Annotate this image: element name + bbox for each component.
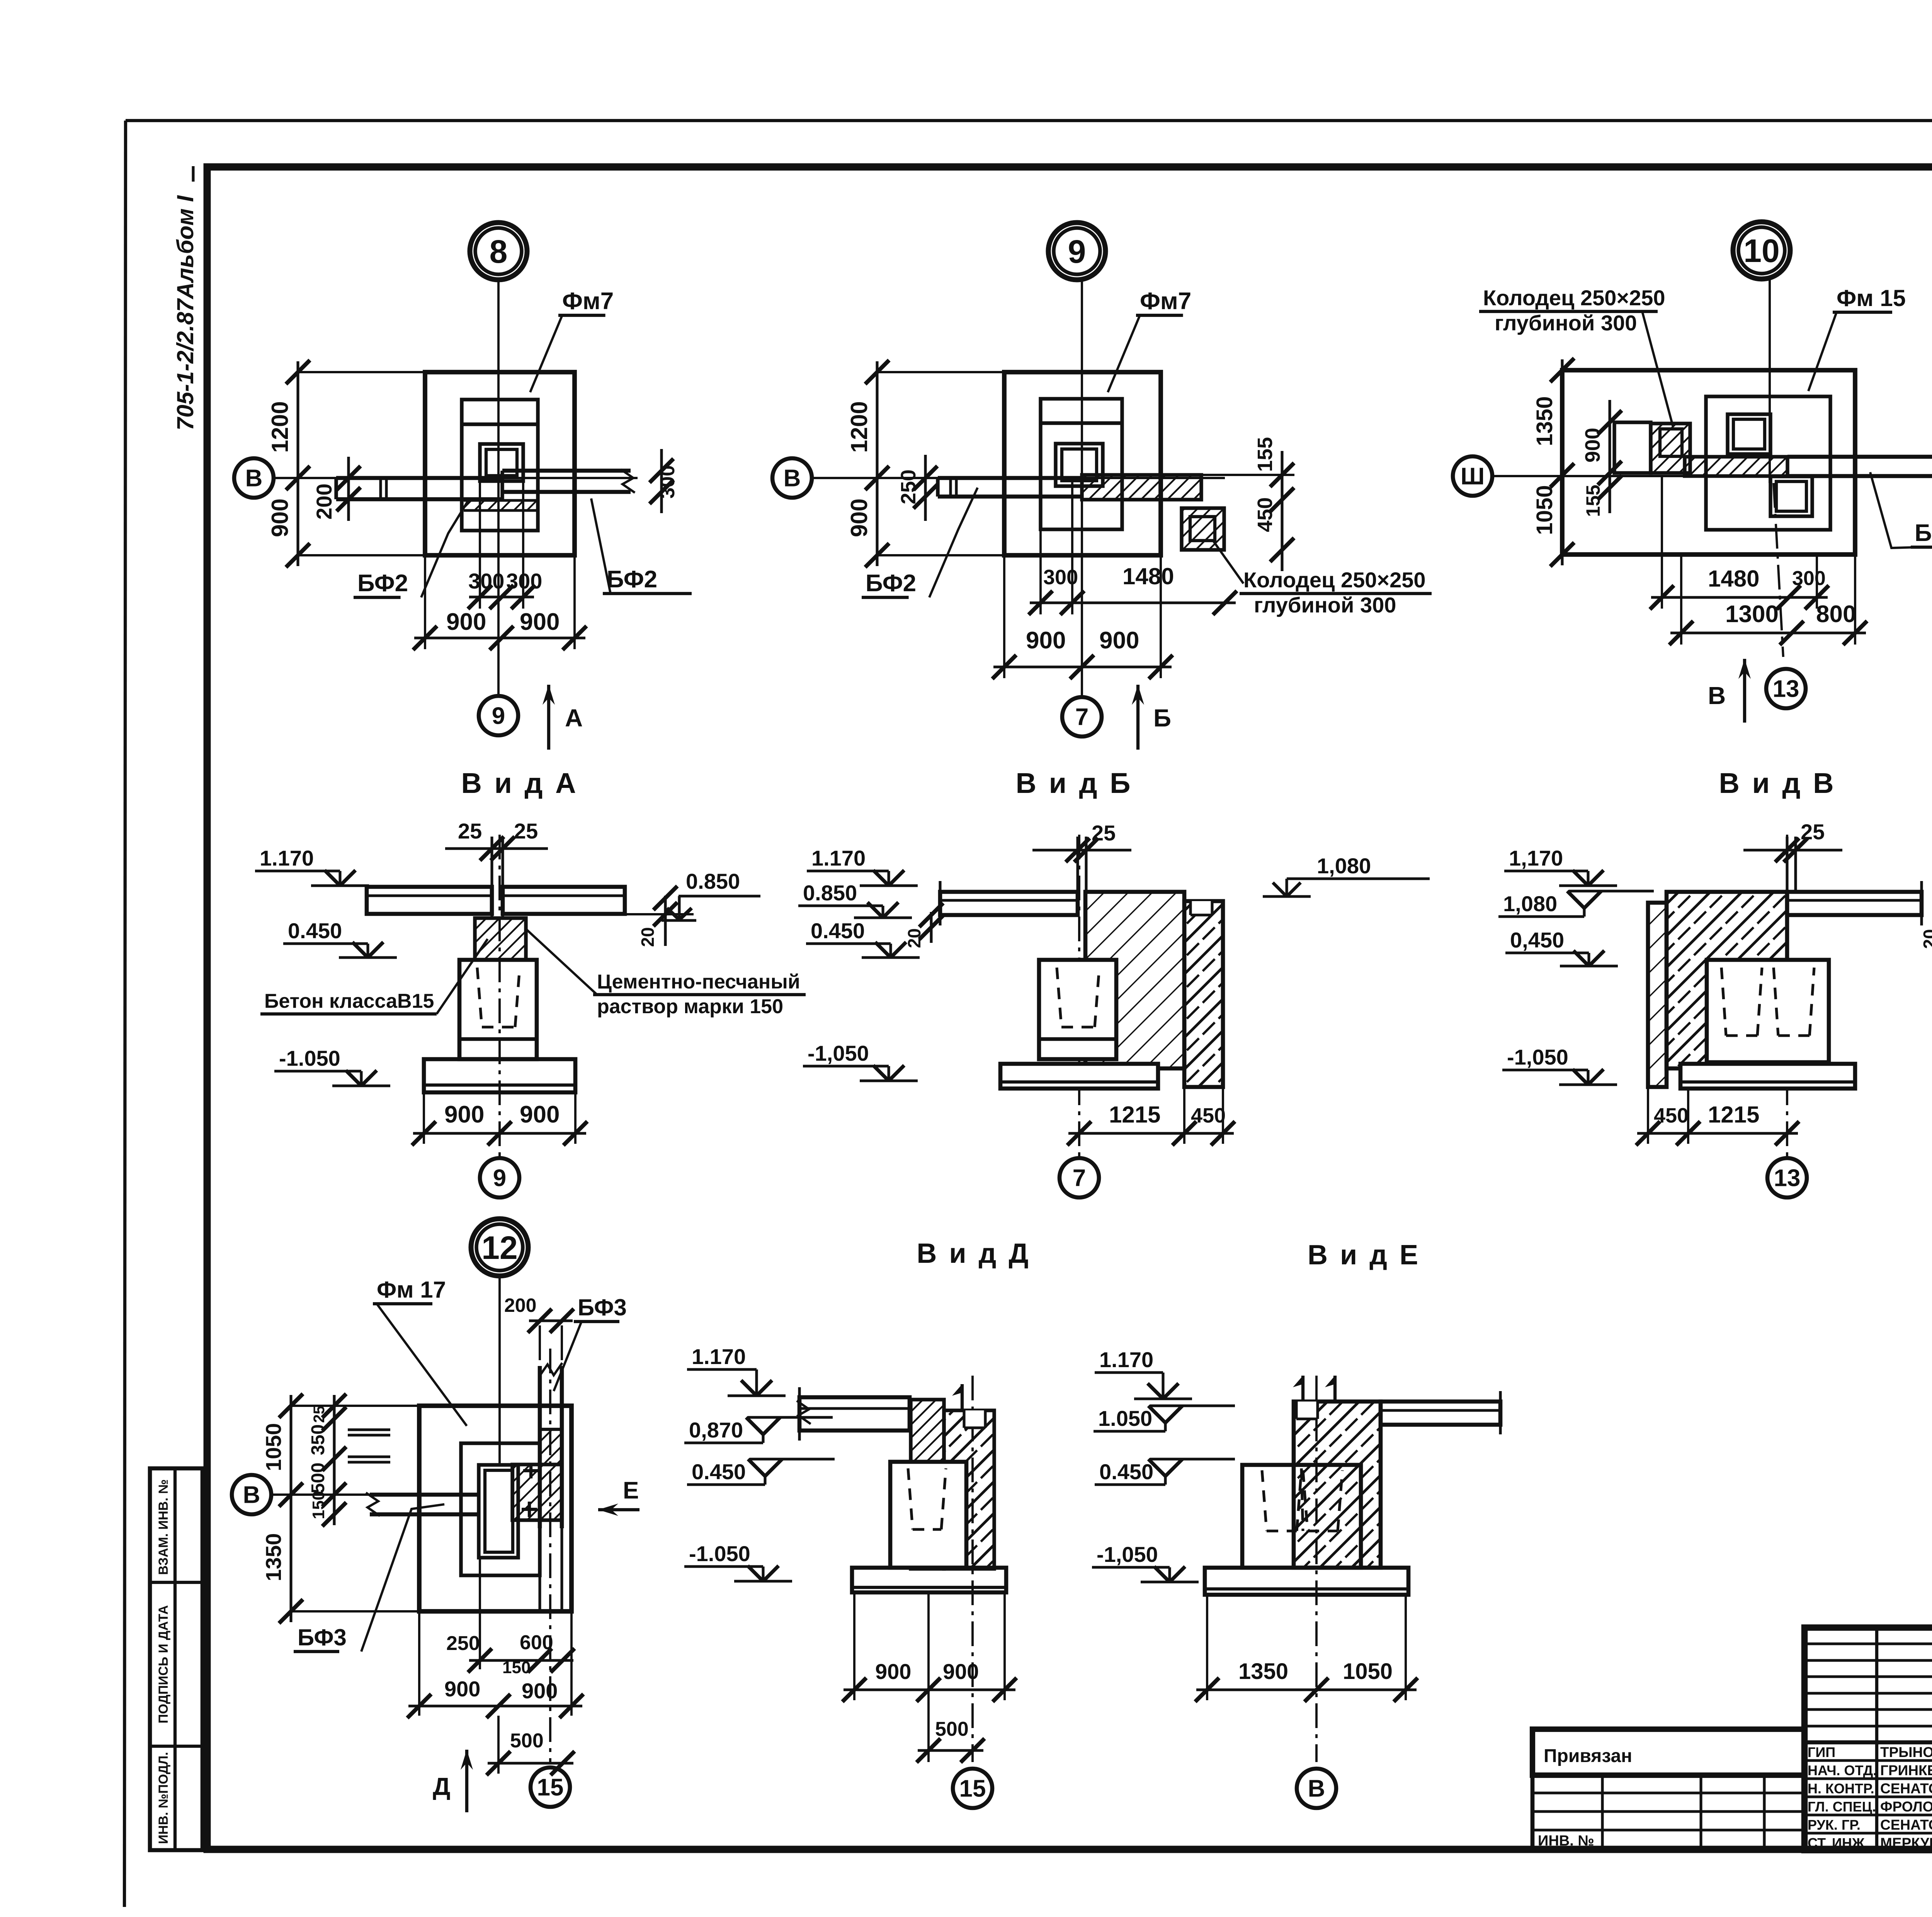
section Б dimension 20 (930, 912, 932, 943)
section Е wall column hatched (1294, 1402, 1381, 1568)
node 12 dimension 200 top (529, 1319, 573, 1322)
section Б wall column hatched (1184, 901, 1223, 1087)
section В wall column hatched left (1648, 903, 1667, 1087)
axis circle 15 node 12 bottom (531, 1767, 570, 1807)
svg-text:1350: 1350 (261, 1533, 286, 1582)
node 10 foundation slab outline (1562, 370, 1855, 555)
node 8 anchor socket (480, 444, 523, 481)
svg-text:В: В (243, 1482, 260, 1509)
svg-text:РУК. ГР.: РУК. ГР. (1808, 1817, 1861, 1833)
svg-text:450: 450 (1253, 497, 1277, 532)
section В pier (1707, 960, 1829, 1062)
section В dimension 25 (1743, 849, 1842, 851)
title block outline (1804, 1628, 1932, 1850)
svg-text:7: 7 (1075, 704, 1088, 731)
node 9 wall panel БФ hatched right (1082, 475, 1201, 500)
section В dimension 450 1215 (1647, 1087, 1649, 1144)
node 12 detail circle (471, 1219, 528, 1276)
node 8 vertical centerline (497, 281, 500, 696)
node 10 wall panel right (1787, 455, 1932, 459)
svg-text:7: 7 (1073, 1165, 1086, 1192)
svg-text:300: 300 (1043, 566, 1078, 589)
section Б footing (1000, 1064, 1158, 1089)
svg-text:ГИП: ГИП (1808, 1744, 1835, 1760)
section Е pier sockets dashed (1262, 1470, 1267, 1531)
axis circle 7 node 9 bottom (1062, 697, 1102, 737)
node 8 dimension 1200/900 left (296, 361, 299, 566)
svg-text:25: 25 (311, 1406, 328, 1423)
svg-text:В и д Е: В и д Е (1308, 1240, 1420, 1271)
sheet inner thick frame (207, 167, 1932, 1849)
svg-text:450: 450 (1191, 1104, 1226, 1127)
svg-text:БФ3: БФ3 (298, 1624, 347, 1650)
svg-text:1.170: 1.170 (692, 1344, 746, 1369)
node 8 pier outline (462, 400, 538, 531)
node 8 detail circle (470, 223, 527, 280)
svg-text:900: 900 (943, 1659, 979, 1684)
svg-text:25: 25 (1801, 820, 1825, 844)
svg-text:10: 10 (1743, 233, 1779, 269)
svg-text:900: 900 (1581, 428, 1604, 463)
svg-text:500: 500 (935, 1718, 969, 1740)
section Д footing (852, 1568, 1006, 1592)
node 10 anchor socket upper (1728, 414, 1770, 454)
node 9 dimension 300 1480 bottom (1039, 529, 1042, 614)
node 10 dimension 1480 300 bottom (1661, 476, 1663, 609)
node 12 horizontal axis line В (271, 1493, 460, 1496)
svg-text:12: 12 (481, 1230, 517, 1266)
svg-text:1.050: 1.050 (1098, 1406, 1152, 1431)
section A pier (459, 960, 537, 1059)
svg-text:1300: 1300 (1725, 601, 1779, 628)
svg-text:150: 150 (502, 1658, 531, 1677)
section Д anchor bolt (961, 1384, 964, 1410)
node 8 dimension 300 300 bottom (479, 481, 481, 609)
svg-text:20: 20 (1920, 929, 1932, 949)
svg-text:СЕНАТОРОВ: СЕНАТОРОВ (1880, 1817, 1932, 1833)
node 12 dimension 250 600 bottom (479, 1558, 481, 1669)
axis circle В node 12 (232, 1475, 271, 1514)
section Д floor slab (799, 1397, 910, 1431)
node 10 dimension 1300 800 bottom (1680, 555, 1682, 645)
node 10 horizontal axis line Ш (1492, 475, 1932, 477)
svg-text:1480: 1480 (1122, 563, 1174, 589)
svg-text:15: 15 (959, 1776, 986, 1802)
node 9 dimension 900 900 bottom (1003, 555, 1005, 678)
bound note box Привязан (1532, 1729, 1804, 1775)
svg-text:25: 25 (1092, 821, 1116, 845)
axis circle Ш node 10 (1453, 456, 1492, 496)
svg-text:1050: 1050 (1532, 485, 1557, 535)
section Б dimension 25 (1032, 849, 1131, 851)
section В joint gap lines (1786, 837, 1788, 892)
svg-text:450: 450 (1654, 1104, 1689, 1127)
svg-text:155: 155 (1253, 437, 1277, 472)
node 10 pier Фм15 outline (1706, 396, 1830, 530)
axis circle В node 8 (234, 458, 274, 498)
node 10 anchor socket lower (1770, 476, 1812, 516)
node 10 well side block (1614, 422, 1651, 473)
svg-text:0.450: 0.450 (288, 919, 342, 943)
svg-text:8: 8 (490, 233, 508, 270)
node 9 horizontal axis line В (812, 477, 1225, 479)
svg-text:350: 350 (308, 1424, 328, 1455)
svg-text:300: 300 (506, 569, 542, 593)
node 8 horizontal axis line В (274, 477, 638, 479)
svg-text:25: 25 (458, 819, 482, 843)
svg-text:1,080: 1,080 (1503, 891, 1557, 916)
svg-text:25: 25 (514, 819, 538, 843)
svg-text:Бетон классаВ15: Бетон классаВ15 (264, 990, 434, 1012)
svg-text:1,170: 1,170 (1509, 846, 1563, 870)
svg-text:ИНВ. №: ИНВ. № (1538, 1833, 1594, 1849)
section Е floor slab right (1381, 1402, 1500, 1425)
svg-text:МЕРКУШИНА: МЕРКУШИНА (1880, 1835, 1932, 1851)
svg-text:В: В (1308, 1776, 1325, 1802)
section Е anchor bolts (1301, 1376, 1304, 1402)
section Б floor slab left (940, 892, 1078, 915)
svg-text:800: 800 (1816, 601, 1856, 628)
svg-text:Фм 17: Фм 17 (377, 1277, 446, 1303)
node 8 mortar joint hatch (464, 500, 537, 510)
section Б pier (1039, 960, 1116, 1059)
node 9 foundation slab Фм7 outline (1004, 372, 1161, 555)
node 10 wall panel БФ hatched (1685, 457, 1787, 476)
node 8 dimension 200 (347, 457, 350, 521)
svg-text:ТРЫНОВ: ТРЫНОВ (1880, 1744, 1932, 1760)
svg-text:ИНВ. №ПОДЛ.: ИНВ. №ПОДЛ. (156, 1752, 171, 1844)
svg-text:1.170: 1.170 (811, 846, 866, 870)
svg-text:1050: 1050 (1343, 1659, 1393, 1684)
svg-text:20: 20 (638, 927, 658, 947)
svg-text:9: 9 (492, 703, 505, 730)
node 9 anchor socket (1056, 444, 1103, 486)
svg-text:Фм7: Фм7 (1140, 288, 1191, 315)
left margin stamp table (150, 1468, 202, 1850)
axis circle 13 section В (1767, 1158, 1807, 1197)
section Д pier socket dashed (908, 1468, 913, 1529)
node 9 well колодец 250x250 (1182, 508, 1224, 550)
sheet outer thin border (126, 119, 1932, 122)
svg-text:705-1-2/2.87Альбом I: 705-1-2/2.87Альбом I (172, 195, 198, 430)
section Е pier (1242, 1465, 1361, 1568)
svg-text:В: В (1708, 682, 1726, 709)
svg-text:БФ2: БФ2 (607, 566, 657, 593)
node 10 detail circle (1733, 222, 1790, 279)
svg-text:В: В (245, 465, 263, 492)
section A dimension 20 (664, 896, 667, 946)
svg-text:900: 900 (520, 1101, 560, 1128)
svg-text:200: 200 (312, 483, 336, 519)
node 9 dimension 250 (924, 455, 927, 521)
section Д dimension 900 900 (844, 1688, 1015, 1691)
svg-text:900: 900 (1099, 627, 1139, 654)
svg-text:-1.050: -1.050 (279, 1046, 340, 1070)
svg-text:СТ. ИНЖ.: СТ. ИНЖ. (1808, 1835, 1868, 1851)
section A floor slab right (503, 887, 625, 914)
section Б joint gap lines (1076, 837, 1079, 892)
svg-text:Фм7: Фм7 (562, 288, 614, 315)
node 8 wall panel БФ2 left (336, 476, 502, 480)
svg-text:ГЛ. СПЕЦ.: ГЛ. СПЕЦ. (1808, 1799, 1876, 1815)
svg-text:200: 200 (504, 1294, 536, 1316)
svg-text:300: 300 (468, 569, 504, 593)
svg-text:глубиной 300: глубиной 300 (1254, 593, 1396, 617)
section Е dimension 1350 1050 (1196, 1688, 1417, 1691)
node 12 foundation slab Фм17 outline (419, 1406, 571, 1611)
node 12 anchor socket (479, 1465, 518, 1558)
svg-text:1350: 1350 (1532, 396, 1557, 446)
axis circle В node 9 (772, 458, 812, 498)
section Б centerline (1078, 835, 1080, 1159)
svg-text:Ш: Ш (1461, 463, 1485, 490)
svg-text:15: 15 (537, 1774, 564, 1801)
node 9 dimension 1200/900 left (876, 361, 878, 566)
svg-text:1.170: 1.170 (260, 846, 314, 870)
svg-text:-1.050: -1.050 (689, 1541, 750, 1566)
svg-text:300: 300 (1792, 567, 1826, 590)
svg-text:13: 13 (1774, 1165, 1801, 1192)
svg-text:500: 500 (510, 1730, 544, 1752)
node 9 wall panel БФ2 left (938, 476, 1082, 480)
section A footing (424, 1059, 575, 1092)
svg-text:Колодец 250×250: Колодец 250×250 (1243, 568, 1426, 592)
svg-text:0,870: 0,870 (689, 1418, 743, 1442)
svg-text:СЕНАТОРОВ: СЕНАТОРОВ (1880, 1781, 1932, 1796)
title block left grid verticals (1875, 1628, 1878, 1850)
svg-text:0.850: 0.850 (686, 869, 740, 893)
svg-text:Н. КОНТР.: Н. КОНТР. (1808, 1781, 1874, 1796)
svg-text:250: 250 (446, 1632, 480, 1655)
svg-text:250: 250 (897, 469, 920, 504)
section Е footing (1205, 1568, 1408, 1595)
svg-text:1200: 1200 (267, 401, 293, 452)
section Б pier socket dashed (1057, 968, 1061, 1027)
svg-text:1350: 1350 (1238, 1659, 1288, 1684)
svg-text:ПОДПИСЬ И ДАТА: ПОДПИСЬ И ДАТА (156, 1605, 171, 1723)
svg-text:БФ: БФ (1915, 520, 1932, 546)
title block upper row lines (1804, 1642, 1932, 1645)
svg-text:13: 13 (1773, 676, 1799, 703)
svg-text:0.450: 0.450 (692, 1459, 746, 1484)
node 8 dimension 900 900 bottom (424, 555, 426, 649)
svg-text:Б: Б (1153, 704, 1171, 732)
svg-text:НАЧ. ОТД.: НАЧ. ОТД. (1808, 1762, 1877, 1778)
axis circle 7 section Б (1060, 1158, 1099, 1197)
svg-text:0,450: 0,450 (1510, 928, 1564, 952)
node 10 dimension 900/155 (1608, 400, 1611, 513)
section A dimension 900 900 (423, 1089, 425, 1144)
view direction arrow Б (1136, 685, 1139, 750)
section Д dimension 500 (918, 1749, 983, 1752)
svg-text:Привязан: Привязан (1544, 1746, 1632, 1766)
node 12 wall panel БФ3 vertical (538, 1366, 542, 1528)
node 8 wall panel БФ2 right (502, 469, 631, 473)
svg-text:-1,050: -1,050 (1097, 1542, 1158, 1567)
svg-text:БФ3: БФ3 (578, 1294, 627, 1320)
svg-text:1200: 1200 (846, 401, 872, 452)
view direction arrow А (547, 685, 550, 750)
node 12 wall hatched block (512, 1465, 562, 1520)
svg-text:1480: 1480 (1708, 566, 1759, 592)
svg-text:900: 900 (875, 1659, 911, 1684)
node 10 vertical centerline (1769, 280, 1771, 483)
svg-text:Д: Д (433, 1772, 451, 1800)
svg-text:В и д В: В и д В (1719, 767, 1836, 799)
section A dimension 25 25 (445, 847, 548, 850)
title block name row lines (1804, 1759, 1932, 1762)
section Б monolith concrete hatched (1085, 892, 1184, 1068)
svg-text:500: 500 (308, 1463, 328, 1493)
node 12 dimension 900 900 bottom (418, 1611, 420, 1716)
section В pier sockets dashed (1721, 968, 1726, 1036)
svg-text:-1,050: -1,050 (1507, 1045, 1568, 1069)
svg-text:ГРИНКЕВИЧ: ГРИНКЕВИЧ (1880, 1762, 1932, 1778)
node 8 dimension 300 right (660, 449, 663, 513)
svg-text:900: 900 (846, 498, 872, 537)
section Е centerline (1315, 1376, 1318, 1762)
section Д footing extension lines (853, 1592, 855, 1700)
section Д pier (890, 1462, 966, 1568)
svg-text:ФРОЛОВА: ФРОЛОВА (1880, 1799, 1932, 1815)
section A pier socket dashed (477, 968, 482, 1027)
svg-text:900: 900 (446, 609, 486, 635)
section A mortar pad hatched (475, 918, 526, 960)
svg-text:0.450: 0.450 (811, 919, 865, 943)
svg-text:900: 900 (444, 1101, 484, 1128)
section Б dimension 1215 450 (1183, 1087, 1185, 1144)
svg-text:300: 300 (656, 465, 679, 499)
node 12 wall panel left horizontal (370, 1493, 480, 1497)
bound note lower table (1532, 1775, 1804, 1850)
section Д centerline (971, 1376, 974, 1762)
svg-text:20: 20 (904, 928, 924, 948)
node 9 vertical centerline (1081, 281, 1083, 697)
section Д wall БФ3 hatched (911, 1400, 944, 1569)
axis circle В section Е (1297, 1769, 1336, 1808)
svg-text:0.450: 0.450 (1099, 1459, 1153, 1484)
svg-text:раствор марки 150: раствор марки 150 (597, 995, 783, 1018)
section A floor slab left (367, 887, 492, 914)
node 12 dimension 25/350/500/150 inner (333, 1395, 335, 1525)
svg-text:ВЗАМ. ИНВ. №: ВЗАМ. ИНВ. № (156, 1479, 171, 1575)
svg-text:600: 600 (520, 1631, 553, 1654)
svg-text:150: 150 (309, 1491, 328, 1519)
node 9 pier outline (1041, 399, 1122, 529)
svg-text:9: 9 (1068, 233, 1086, 270)
svg-text:155: 155 (1582, 485, 1604, 517)
node 12 dimension 1050/1350 left (289, 1395, 292, 1622)
section Е footing extension lines (1206, 1595, 1208, 1700)
svg-text:1050: 1050 (261, 1423, 286, 1471)
svg-text:1.170: 1.170 (1099, 1347, 1153, 1372)
node 10 well колодец hatched (1651, 424, 1690, 473)
node 12 dimension 500 bottom (488, 1762, 573, 1764)
node 12 plus marks (523, 1469, 539, 1472)
section A joint gap lines (490, 837, 493, 918)
axis circle 9 node 8 bottom (479, 696, 518, 735)
section В floor slab right (1787, 892, 1922, 915)
node 12 vertical centerline (498, 1277, 501, 1465)
axis circle 15 section Д (953, 1769, 992, 1808)
view direction arrow Е (598, 1508, 639, 1511)
svg-text:Е: Е (623, 1477, 639, 1504)
svg-text:900: 900 (1026, 627, 1066, 654)
axis circle 13 node 10 bottom (1766, 669, 1806, 708)
svg-text:Колодец 250×250: Колодец 250×250 (1483, 286, 1665, 310)
svg-text:900: 900 (520, 609, 560, 635)
section A centerline (498, 835, 501, 1159)
svg-text:900: 900 (522, 1679, 558, 1703)
svg-text:В и д Б: В и д Б (1016, 767, 1133, 799)
svg-text:глубиной 300: глубиной 300 (1495, 311, 1637, 335)
axis circle 9 section A (480, 1158, 519, 1197)
section В centerline (1786, 835, 1788, 1159)
svg-text:9: 9 (493, 1165, 506, 1192)
svg-text:1,080: 1,080 (1317, 854, 1371, 878)
svg-text:В и д Д: В и д Д (917, 1238, 1031, 1269)
section В monolith concrete hatched (1667, 892, 1787, 1068)
svg-text:0.850: 0.850 (803, 881, 857, 905)
svg-text:В и д А: В и д А (461, 767, 578, 799)
section В footing (1680, 1064, 1855, 1089)
svg-text:900: 900 (267, 498, 293, 537)
svg-text:-1,050: -1,050 (808, 1041, 869, 1065)
svg-text:Фм 15: Фм 15 (1837, 285, 1906, 311)
svg-text:БФ2: БФ2 (357, 570, 408, 597)
section Д wall block hatched (944, 1410, 994, 1569)
svg-text:А: А (565, 704, 583, 732)
node 12 pier outline (461, 1443, 540, 1575)
svg-text:1215: 1215 (1109, 1102, 1160, 1128)
node 9 detail circle (1048, 223, 1105, 280)
view direction arrow В (1743, 659, 1746, 723)
node 12 double tie marks (348, 1428, 390, 1431)
node 12 wall hatched vertical (540, 1429, 562, 1520)
svg-text:1215: 1215 (1708, 1102, 1759, 1128)
node 10 dimension 1350/1050 left (1561, 359, 1563, 565)
node 9 dimension 155/450 right (1281, 451, 1283, 571)
svg-text:БФ2: БФ2 (866, 570, 916, 597)
node 8 foundation slab Фм7 outline (425, 372, 575, 555)
svg-text:Цементно-песчаный: Цементно-песчаный (597, 971, 800, 993)
svg-text:В: В (784, 465, 801, 492)
svg-text:900: 900 (444, 1677, 480, 1701)
view direction arrow Д (465, 1750, 468, 1812)
